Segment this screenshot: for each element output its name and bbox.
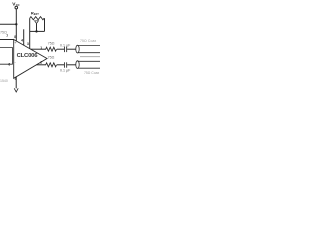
svg-text:1540: 1540 — [0, 79, 8, 83]
svg-text:7: 7 — [6, 34, 8, 38]
svg-text:75Ω Coax: 75Ω Coax — [80, 39, 97, 43]
svg-text:6: 6 — [8, 63, 10, 67]
svg-text:5: 5 — [15, 77, 17, 81]
svg-text:2: 2 — [40, 60, 42, 64]
svg-text:3: 3 — [27, 42, 29, 46]
svg-text:75Ω: 75Ω — [0, 30, 7, 34]
svg-text:CC: CC — [16, 3, 20, 7]
svg-text:75Ω: 75Ω — [48, 41, 55, 45]
svg-text:1: 1 — [40, 46, 42, 50]
svg-text:0.1 µF: 0.1 µF — [60, 68, 71, 72]
svg-text:EXT: EXT — [34, 13, 39, 16]
svg-text:0.1 µF: 0.1 µF — [60, 43, 71, 47]
svg-text:4: 4 — [21, 38, 23, 42]
svg-text:+: + — [14, 41, 16, 45]
svg-text:CLC006: CLC006 — [17, 53, 39, 59]
svg-text:75Ω Coax: 75Ω Coax — [84, 71, 99, 75]
svg-text:75Ω: 75Ω — [48, 55, 55, 59]
svg-text:8: 8 — [14, 35, 16, 39]
